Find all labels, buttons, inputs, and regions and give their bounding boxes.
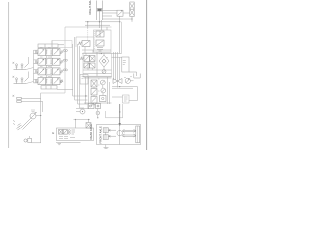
pump circle mid xyxy=(76,109,89,115)
cooler box right xyxy=(122,57,137,72)
wire bundle right vertical xyxy=(114,52,120,88)
servo valve b xyxy=(90,56,96,62)
valve stack top plate xyxy=(38,41,64,48)
enclosure box outline xyxy=(41,27,112,93)
solenoid valve SV1 xyxy=(59,130,63,135)
wire right of hydro block xyxy=(112,54,122,58)
wire right mid xyxy=(112,87,138,103)
wire steering lines top xyxy=(102,11,123,20)
priority valve PV xyxy=(79,28,91,47)
cylinder right-axle steering xyxy=(97,1,103,21)
rear axle box xyxy=(52,124,93,145)
coil circles xyxy=(68,130,70,132)
differential circle xyxy=(117,131,122,136)
wire under steering xyxy=(82,47,120,55)
valve section V3 xyxy=(34,67,68,78)
tank symbol right xyxy=(134,72,140,78)
drain circle xyxy=(96,109,100,118)
orifice marks xyxy=(72,130,76,134)
check valve CV1 xyxy=(113,79,122,84)
hub box lower xyxy=(103,135,108,140)
page left edge rule xyxy=(8,2,10,148)
servo cylinder box xyxy=(80,75,88,85)
wire bundle vertical center xyxy=(52,37,88,108)
axle shaft lines right xyxy=(123,129,136,131)
servo valve d xyxy=(90,63,96,68)
charge filter F1 xyxy=(91,80,97,87)
lower ticks xyxy=(59,137,75,139)
hydrostatic pump block xyxy=(81,52,112,77)
gauge circle 2 xyxy=(101,88,106,93)
margin speck marks xyxy=(13,121,15,125)
FRONT AXLE box xyxy=(97,125,141,145)
loop diamond xyxy=(99,55,109,67)
valve section V1 xyxy=(34,47,68,58)
wheel right xyxy=(136,126,140,143)
hub box upper xyxy=(103,128,108,133)
arrows left side xyxy=(108,129,116,131)
end cap D xyxy=(41,80,73,90)
box around column bottom xyxy=(106,104,123,118)
aux pump circle xyxy=(124,77,134,84)
wire down to pump xyxy=(41,93,43,143)
coupler pair 3 xyxy=(13,95,43,102)
wire bottom center xyxy=(74,120,92,129)
spring left xyxy=(81,57,85,60)
feed line to axle xyxy=(119,104,121,127)
wire stack left rail xyxy=(34,50,66,83)
svg-text:FRONT AXLE: FRONT AXLE xyxy=(99,126,103,143)
steering unit U1 xyxy=(94,20,112,52)
solenoid boxes bottom of column xyxy=(88,104,101,109)
wire below axle xyxy=(104,145,109,149)
wire top right xyxy=(119,13,133,22)
charge relief valve xyxy=(91,89,97,96)
valve section V4 xyxy=(34,76,64,84)
wire middle column xyxy=(84,77,112,109)
wire trunk vertical right xyxy=(119,16,121,53)
valve with spring xyxy=(91,97,97,106)
motor circle xyxy=(102,70,106,74)
svg-text:E: E xyxy=(52,131,54,135)
svg-text:RIGHT AXLE: RIGHT AXLE xyxy=(88,0,92,15)
coupler pair 2 xyxy=(13,72,34,84)
orifice box xyxy=(100,96,107,102)
variable pump P1 xyxy=(17,110,41,130)
axle input shaft xyxy=(119,125,121,145)
under line xyxy=(56,141,81,143)
return gauge G1 xyxy=(24,136,41,143)
servo valve c xyxy=(84,63,90,68)
gauge circle 1 xyxy=(100,80,105,85)
wire steering cross lines xyxy=(85,20,120,28)
solenoid valve SV2 xyxy=(63,130,67,135)
valve section V2 xyxy=(34,57,68,68)
pressure valve PRV xyxy=(117,10,123,16)
junction dots xyxy=(40,86,120,120)
wire in block xyxy=(83,69,112,71)
servo valve a xyxy=(84,56,90,62)
page right edge rule xyxy=(146,0,148,150)
accumulator ACC xyxy=(130,2,134,22)
coupler pair 1 xyxy=(13,57,34,70)
